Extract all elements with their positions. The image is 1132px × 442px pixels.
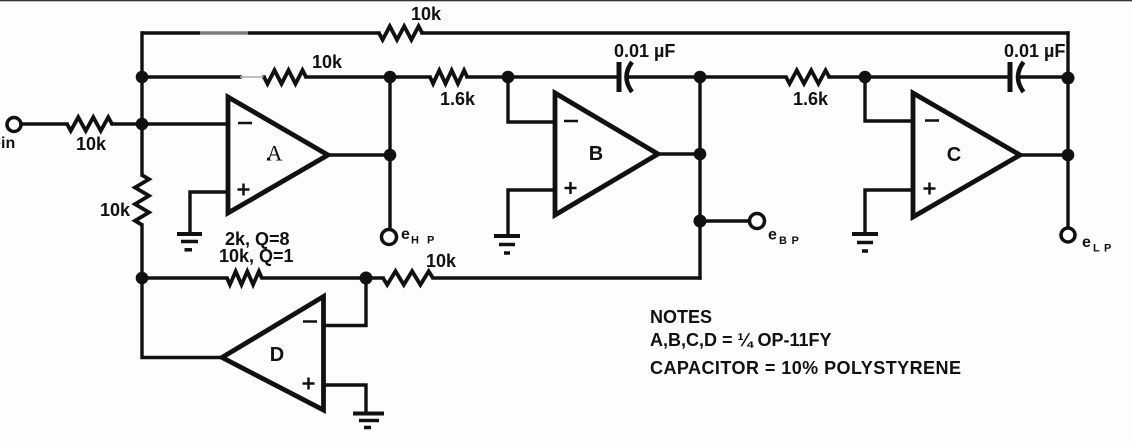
svg-text:A,B,C,D = ¼ OP-11FY: A,B,C,D = ¼ OP-11FY bbox=[650, 330, 832, 350]
svg-text:L: L bbox=[1093, 243, 1100, 255]
svg-text:CAPACITOR = 10% POLYSTYRENE: CAPACITOR = 10% POLYSTYRENE bbox=[650, 358, 961, 378]
svg-text:D: D bbox=[270, 344, 284, 366]
svg-text:in: in bbox=[1, 135, 15, 152]
svg-text:10k: 10k bbox=[426, 251, 457, 271]
svg-text:B: B bbox=[779, 235, 787, 247]
svg-text:C: C bbox=[947, 144, 961, 166]
svg-text:P: P bbox=[792, 235, 799, 247]
svg-text:10k, Q=1: 10k, Q=1 bbox=[219, 246, 294, 266]
svg-text:B: B bbox=[589, 143, 603, 165]
svg-text:P: P bbox=[1104, 243, 1111, 255]
svg-text:1.6k: 1.6k bbox=[793, 89, 829, 109]
svg-text:NOTES: NOTES bbox=[650, 307, 712, 327]
svg-text:A: A bbox=[267, 141, 283, 166]
svg-text:H: H bbox=[411, 235, 419, 247]
svg-text:e: e bbox=[1082, 234, 1091, 251]
svg-text:e: e bbox=[768, 227, 777, 244]
svg-text:1.6k: 1.6k bbox=[440, 89, 476, 109]
svg-text:10k: 10k bbox=[411, 4, 442, 24]
svg-text:0.01 µF: 0.01 µF bbox=[1004, 41, 1065, 61]
svg-text:0.01 µF: 0.01 µF bbox=[614, 41, 675, 61]
svg-text:10k: 10k bbox=[312, 52, 343, 72]
svg-text:10k: 10k bbox=[76, 134, 107, 154]
svg-text:e: e bbox=[401, 226, 410, 243]
svg-text:P: P bbox=[427, 235, 434, 247]
svg-text:10k: 10k bbox=[100, 200, 131, 220]
